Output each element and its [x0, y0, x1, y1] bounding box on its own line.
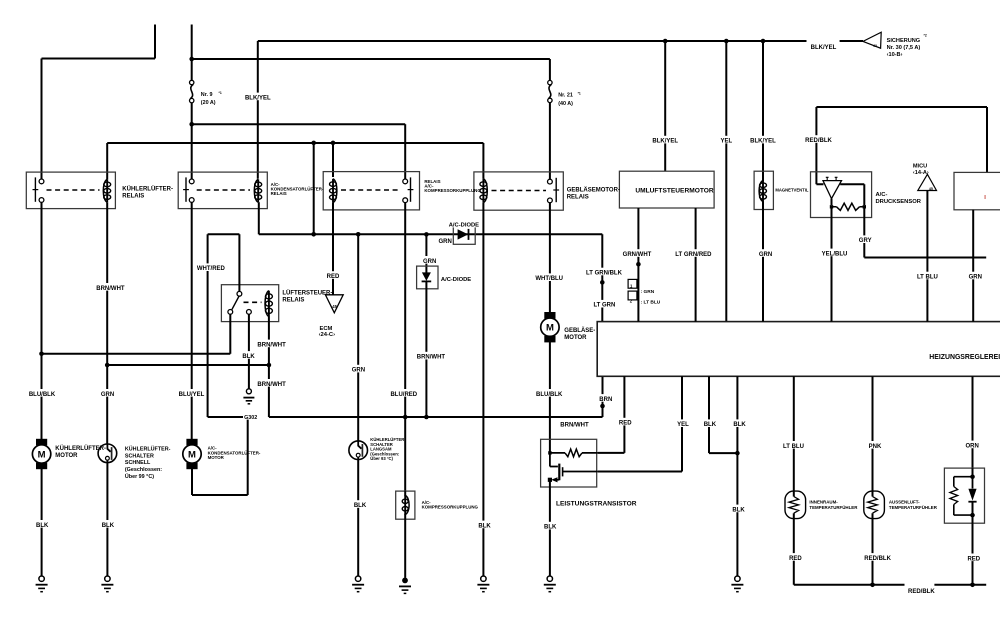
relay K2 dashed link [197, 189, 250, 191]
relay K4 contact bar [555, 178, 557, 202]
relay K1 contact pins [39, 179, 44, 184]
svg-text:BLU/BLK: BLU/BLK [29, 392, 56, 398]
wire top feed stub [154, 25, 156, 59]
svg-text:BLK: BLK [732, 507, 745, 513]
svg-text:HEIZUNGSREGLEREINHEIT: HEIZUNGSREGLEREINHEIT [929, 354, 1000, 361]
svg-text:DRUCKSENSOR: DRUCKSENSOR [876, 199, 922, 205]
wire LT BLU from MICU to heater unit [926, 191, 928, 322]
svg-text:Nr. 21: Nr. 21 [558, 92, 573, 98]
label WHT/RED [198, 263, 224, 271]
label BLK heater pin 1 [703, 419, 716, 427]
transistor gate bar [562, 467, 564, 476]
node A/C bus x313 [311, 232, 316, 237]
node sensor bus right end [970, 583, 975, 588]
wire relay K1 coil output down [106, 202, 108, 444]
label BLU/BLK blower [536, 389, 562, 397]
wire BLK to ground [736, 453, 738, 576]
wire bus y354 to radiator fan motor branch [42, 353, 231, 355]
svg-text:GRN: GRN [759, 252, 772, 258]
transistor drain link [550, 453, 558, 467]
ground LANGSAM switch [355, 576, 360, 581]
label GRN right module [969, 272, 982, 280]
svg-text:BLK/YEL: BLK/YEL [652, 139, 678, 145]
wire heater BLK pins join [709, 376, 737, 453]
relay K3 dashed link [341, 189, 398, 191]
svg-text:M: M [188, 449, 196, 460]
svg-text:(20 A): (20 A) [201, 100, 216, 106]
svg-text:RELAIS: RELAIS [567, 195, 589, 201]
sensor output from apex [831, 199, 833, 205]
label BRN/WHT diode output [418, 352, 444, 360]
label GRN at A/C diode bus [439, 236, 452, 244]
node BLK join [735, 451, 740, 456]
ground heater BLK [735, 576, 740, 581]
svg-text:SICHERUNG: SICHERUNG [887, 38, 921, 44]
svg-text:BRN/WHT: BRN/WHT [257, 382, 286, 388]
node A/C bus x358 [356, 232, 361, 237]
transistor gate lead [563, 471, 598, 473]
wire BRN/WHT from vertical diode down to BRN bus [425, 281, 427, 417]
svg-text:UMLUFTSTEUERMOTOR: UMLUFTSTEUERMOTOR [635, 188, 714, 195]
relay K1 coil [103, 179, 107, 202]
wire AUSSENLUFT RED/BLK down [872, 518, 874, 584]
wire ORN from heater to solar sensor [972, 376, 974, 470]
label GRN langsam wire [352, 365, 365, 373]
wire MAGNETVENTIL feed drop [762, 41, 764, 181]
svg-text:A/C-DIODE: A/C-DIODE [449, 223, 479, 229]
wire YEL/BLU sensor output to heater unit [831, 209, 833, 322]
wire fuse Nr.9 feed from top [191, 25, 193, 81]
svg-text:MICU: MICU [913, 163, 927, 169]
wire GRN stub down into vertical A/C diode [425, 234, 427, 272]
svg-text:GRN: GRN [352, 368, 365, 374]
connector pin 1 square [628, 279, 637, 288]
wire heater YEL pin to power transistor gate [598, 376, 682, 471]
svg-text:*1: *1 [219, 91, 222, 95]
wire relay K4 coil bottom to ground [482, 203, 484, 579]
wire top bus y41 after label [840, 40, 863, 42]
svg-text:ORN: ORN [966, 443, 979, 449]
solar sensor box [944, 468, 984, 523]
svg-text:YEL: YEL [720, 139, 732, 145]
label LT BLU micu [916, 272, 938, 280]
transistor channel bar [558, 464, 560, 481]
relay K2 contact pins [189, 179, 194, 184]
svg-text:RELAIS: RELAIS [122, 193, 144, 199]
svg-text:GRN/WHT: GRN/WHT [623, 252, 652, 258]
transistor source arrow [551, 477, 557, 482]
connector pin 2 square [628, 291, 637, 300]
wire bus y143 to A/C bus drop [313, 143, 315, 234]
svg-text:M: M [546, 323, 554, 334]
relay K4 GEBLAESEMOTOR-RELAIS box [474, 172, 563, 210]
svg-text:RELAIS: RELAIS [282, 297, 304, 303]
wire drop relay 3 contact feed [404, 124, 406, 179]
svg-text:LT BLU: LT BLU [783, 444, 804, 450]
svg-text:45: 45 [929, 187, 933, 191]
wire RED/BLK drop into A/C-DRUCKSENSOR [816, 107, 823, 184]
power transistor LEISTUNGSTRANSISTOR box [541, 439, 597, 487]
wire bus y59 from fuse Nr.9 node to fuse Nr.21 [192, 58, 550, 60]
label LT GRN/BLK [586, 268, 622, 276]
motor UMLUFTSTEUERMOTOR box [619, 171, 714, 208]
label YEL/BLU [821, 249, 847, 257]
label BLK transistor ground [544, 522, 557, 530]
svg-text:Nr. 30 (7,5 A): Nr. 30 (7,5 A) [887, 45, 921, 51]
svg-text:RED: RED [967, 556, 980, 562]
node BRN bus at BLU/RED [403, 415, 408, 420]
svg-text:GEBLÄSEMOTOR-: GEBLÄSEMOTOR- [567, 187, 620, 194]
MICU triangle [918, 174, 937, 190]
wire bus y143 relay coils feed [107, 142, 483, 144]
relay K1 contact bar [34, 177, 36, 201]
svg-text:BRN/WHT: BRN/WHT [96, 286, 125, 292]
wire fuse Nr.9 output down to relay 2 contact [191, 103, 193, 180]
label YEL feed [720, 136, 733, 144]
node top bus x726 [724, 39, 729, 44]
node sensor bus at AUSSENLUFT [870, 583, 875, 588]
svg-text:RED/BLK: RED/BLK [908, 589, 935, 595]
label BRN/WHT luefter relay coil upper [259, 340, 285, 348]
relay K3 A/C-KOMPRESSORKUPPLUNG relay box [323, 172, 419, 210]
svg-text:RELAIS: RELAIS [271, 191, 287, 196]
node BRN color change [600, 404, 605, 409]
wire GRY sensor output right [864, 209, 986, 258]
svg-text:BRN: BRN [599, 397, 612, 403]
node sensor resistor left [830, 205, 833, 208]
svg-text:G302: G302 [244, 415, 257, 421]
wire SCHNELL switch BLK to ground [106, 463, 108, 576]
label BRN/WHT relay1 coil out [97, 283, 123, 291]
ECM triangle [325, 295, 343, 313]
svg-text:45: 45 [332, 304, 337, 309]
wire radiator fan motor BLK to ground [41, 469, 43, 576]
label RED solar [967, 554, 980, 562]
svg-text:BLK: BLK [478, 523, 491, 529]
compressor clutch coil [404, 491, 406, 496]
svg-text:RED: RED [619, 421, 632, 427]
label BLK/YEL magnetventil feed [750, 136, 776, 144]
svg-text:GRY: GRY [859, 238, 872, 244]
svg-text:KOMPRESSORKUPPLUNG: KOMPRESSORKUPPLUNG [422, 505, 479, 510]
A/C-DIODE horizontal diode symbol [458, 229, 469, 239]
wire blower motor output BLU/BLK down to power transistor [549, 342, 551, 453]
relay K2 contact bar [185, 177, 187, 201]
wire drop into fuse Nr.21 [549, 59, 551, 81]
label BLK relay4 ground [478, 521, 491, 529]
wire relay K3 contact output BLU/RED down to compressor clutch [404, 202, 406, 491]
svg-text:KÜHLERLÜFTER-: KÜHLERLÜFTER- [125, 446, 171, 453]
node bus y143 x333 [331, 141, 336, 146]
svg-text:BRN/WHT: BRN/WHT [417, 355, 446, 361]
svg-text:GRN: GRN [439, 239, 452, 245]
relay K5 top pin [237, 291, 242, 296]
label A/C-DIODE horizontal [449, 220, 479, 227]
ground G302 [246, 389, 251, 394]
svg-text:BLU/BLK: BLU/BLK [536, 392, 563, 398]
wire relay K3 coil bottom RED to ECM [332, 203, 334, 295]
node transistor drain [548, 451, 551, 454]
svg-text:RED/BLK: RED/BLK [864, 556, 891, 562]
svg-text:M: M [38, 449, 46, 460]
sensor INNENRAUM-TEMPERATURFUEHLER [793, 376, 795, 493]
svg-text:MAGNETVENTIL: MAGNETVENTIL [775, 188, 808, 193]
label WHT/BLU [536, 273, 562, 281]
svg-text:BLK: BLK [704, 422, 717, 428]
svg-text:MOTOR: MOTOR [208, 455, 225, 460]
svg-text:BLK: BLK [544, 525, 557, 531]
svg-text:BRN/WHT: BRN/WHT [257, 342, 286, 348]
svg-text:GRN: GRN [101, 392, 114, 398]
svg-text:(40 A): (40 A) [558, 101, 573, 107]
fuse symbol SICHERUNG Nr.30 triangle [863, 32, 881, 48]
sensor feedback wire [840, 184, 864, 205]
wire UMLUFT motor GRN/WHT output down to heater unit [637, 208, 639, 322]
svg-text:42: 42 [873, 44, 877, 48]
sensor op-amp top pins [826, 177, 829, 180]
wire relay 1 coil top drop [106, 143, 108, 179]
wire INNENRAUM RED down [793, 518, 795, 584]
label ORN solar [966, 441, 979, 449]
svg-text:BLU/RED: BLU/RED [390, 392, 417, 398]
label BLK heater pin 2 [733, 419, 746, 427]
svg-text:SCHALTER: SCHALTER [125, 453, 154, 459]
svg-text:GEBLÄSE-: GEBLÄSE- [564, 327, 595, 334]
svg-text:A/C-DIODE: A/C-DIODE [441, 277, 471, 283]
svg-text:: LT BLU: : LT BLU [641, 300, 661, 306]
svg-text:YEL: YEL [677, 422, 689, 428]
node sensor resistor right [863, 205, 866, 208]
wire relay K2 coil bottom to A/C bus [258, 202, 260, 234]
wire RED/BLK feed horizontal y107 [816, 106, 987, 108]
svg-text:LT BLU: LT BLU [917, 275, 938, 281]
label BLU/BLK radiator fan [29, 389, 55, 397]
svg-text:SCHNELL: SCHNELL [125, 460, 151, 466]
wire GRN from right module to heater unit [972, 210, 974, 322]
node solar top [970, 474, 975, 479]
wire clutch to ground [404, 519, 406, 578]
wire LT GRN drop into heater unit [601, 234, 603, 321]
relay K4 coil [483, 179, 487, 203]
wire BLK/YEL drop to relay 1 contact [41, 59, 43, 180]
solenoid MAGNETVENTIL box [754, 171, 773, 209]
node LT GRN color change [600, 280, 605, 285]
ground relay K4 coil BLK [481, 576, 486, 581]
node bus y365 right [267, 363, 272, 368]
switch KUEHLERLUEFTER-SCHALTER SCHNELL [98, 444, 117, 463]
transistor internal resistor [565, 449, 582, 457]
label BLU/YEL [178, 389, 204, 397]
label LT BLU innenraum [782, 441, 804, 449]
relay K5 bottom pins [228, 310, 233, 315]
node A/C bus x426 [424, 232, 429, 237]
node top bus x763 [761, 39, 766, 44]
A/C-DIODE vertical diode symbol [422, 272, 431, 281]
svg-text:BLK: BLK [102, 523, 115, 529]
label BLK/YEL on top bus [810, 42, 836, 50]
svg-text:INNENRAUM-: INNENRAUM- [809, 500, 838, 505]
A/C-DIODE horizontal box [453, 225, 475, 245]
wire WHT/RED down to fan motor return bus [207, 234, 209, 417]
label BLK langsam [353, 500, 366, 508]
heater control unit HEIZUNGSREGLEREINHEIT box [597, 322, 1000, 377]
wire MAGNETVENTIL GRN output to heater unit [762, 202, 764, 322]
right edge module box [954, 172, 1000, 209]
svg-text:RED: RED [789, 556, 802, 562]
wire relay 4 coil top drop [482, 143, 484, 179]
node bus y143 x313 [311, 141, 316, 146]
wire sensor return bus y585 [794, 584, 905, 586]
A/C-DIODE vertical box [417, 266, 438, 289]
label BLK/YEL umluft feed [652, 136, 678, 144]
solenoid MAGNETVENTIL coil [759, 181, 763, 202]
relay K3 contact bar [410, 177, 412, 201]
svg-text:BLK: BLK [242, 354, 255, 360]
svg-text:MOTOR: MOTOR [55, 453, 78, 459]
label GRN schnell wire [101, 389, 114, 397]
node GRN/WHT splice [636, 262, 641, 267]
svg-text:WHT/BLU: WHT/BLU [535, 276, 563, 282]
sensor AUSSENLUFT-TEMPERATURFUEHLER [872, 376, 874, 493]
label GRN above vertical diode [423, 256, 436, 264]
wire link bus y365 GRN to BRN/WHT [107, 364, 269, 366]
wire bus y124 from fuse Nr.9 line to relay 3 contact [192, 123, 406, 125]
wire GRN drop to fan switch LANGSAM [357, 234, 359, 441]
svg-text:ECM: ECM [320, 326, 333, 332]
relay K5 coil [265, 291, 269, 317]
fuse Nr.9 (20 A) [190, 80, 194, 84]
svg-text:TEMPERATURFÜHLER: TEMPERATURFÜHLER [889, 505, 938, 510]
label GRY [859, 235, 872, 243]
relay K5 dashed link [244, 301, 262, 303]
node solar bottom [970, 513, 975, 518]
svg-text:LEISTUNGSTRANSISTOR: LEISTUNGSTRANSISTOR [556, 500, 637, 507]
label RED/BLK aussenluft [865, 553, 891, 561]
label YEL heater pin [676, 419, 689, 427]
node bus y124 tap [189, 122, 194, 127]
motor KUEHLERLUEFTER-MOTOR [36, 439, 47, 446]
wire relay K1 contact output down [41, 202, 43, 439]
A/C-KOMPRESSORKUPPLUNG box [396, 491, 415, 519]
svg-text:BLU/YEL: BLU/YEL [179, 392, 205, 398]
label BRN heater pin [599, 394, 612, 402]
label BLK heater ground [732, 505, 745, 513]
label LT GRN/RED [676, 249, 712, 257]
svg-text:KOMPRESSORKUPPLUNG: KOMPRESSORKUPPLUNG [424, 188, 481, 193]
node BRN bus at diode output [424, 415, 429, 420]
svg-text:Über 99 °C): Über 99 °C) [125, 473, 154, 480]
sensor internal resistor [837, 203, 860, 210]
svg-text:MOTOR: MOTOR [564, 335, 587, 341]
label BLK g302 wire [242, 351, 255, 359]
label BLK grounds left [36, 520, 49, 528]
wire relay K5 bottom-left pin down to bus y354 [229, 314, 231, 354]
label BRN/WHT luefter relay coil lower [259, 379, 285, 387]
svg-text:*1: *1 [578, 92, 581, 96]
wire relay K2 contact output BLU/YEL down to condenser fan motor [191, 202, 193, 439]
wire A/C bus y234 from relay K2 coil to heater unit [259, 233, 603, 235]
svg-text:BLK/YEL: BLK/YEL [245, 95, 271, 101]
label RED ecm wire [326, 271, 339, 279]
wire relay K4 contact output WHT/BLU to blower motor [549, 202, 551, 313]
svg-text:KÜHLERLÜFTER-: KÜHLERLÜFTER- [55, 445, 106, 452]
svg-text:Über 93 °C): Über 93 °C) [370, 456, 393, 461]
wire BRN/WHT bus y417 to heater unit BRN [269, 376, 603, 417]
svg-text:GRN: GRN [423, 259, 436, 265]
label RED heater pin [619, 418, 632, 426]
svg-text:LT GRN/BLK: LT GRN/BLK [586, 271, 623, 277]
svg-text:PNK: PNK [869, 444, 882, 450]
wire drop into right edge module [986, 107, 988, 172]
node transistor source [548, 478, 552, 482]
svg-text:Nr. 9: Nr. 9 [201, 92, 213, 98]
label BLK/YEL on fuse Nr.9 wire [245, 93, 271, 101]
wire relay K5 top pin up and over (WHT/RED jog) [208, 234, 240, 291]
svg-text:BLK: BLK [733, 422, 746, 428]
svg-text:BLK: BLK [36, 523, 49, 529]
node bus y354 at BLU/BLK wire [39, 352, 44, 357]
wire heater RED pin to power transistor [598, 376, 625, 453]
relay K5 blade [232, 296, 239, 310]
wire relay 3 coil top drop [332, 143, 334, 177]
svg-text:RED/BLK: RED/BLK [805, 138, 832, 144]
svg-text:‹14-A›: ‹14-A› [913, 170, 929, 176]
svg-text:KÜHLERLÜFTER-: KÜHLERLÜFTER- [122, 185, 173, 192]
switch KUEHLERLUEFTER-SCHALTER LANGSAM [349, 441, 368, 460]
ground SCHNELL switch [105, 576, 110, 581]
ground compressor clutch [402, 578, 408, 584]
ground transistor BLK [547, 576, 552, 581]
relay K5 LUEFTERSTEUER-RELAIS box [221, 285, 278, 322]
relay K1 KUEHLERLUEFTER-RELAIS box [26, 172, 115, 209]
relay K4 contact pins [548, 179, 553, 184]
sensor op-amp triangle [823, 181, 842, 199]
svg-text:RED: RED [327, 274, 340, 280]
svg-text:GRN: GRN [969, 275, 982, 281]
node fuse Nr.9 / bus y59 [189, 57, 194, 62]
fuse Nr.21 (40 A) [548, 80, 552, 84]
relay K1 dashed link [47, 189, 100, 191]
label LT GRN [593, 300, 615, 308]
sensor A/C-DRUCKSENSOR box [811, 172, 872, 218]
wire fuse Nr.21 output to relay 4 contact [549, 102, 551, 179]
wire solar RED output down [972, 523, 974, 585]
relay K3 coil [333, 179, 337, 203]
label BLU/RED [391, 389, 417, 397]
wire top bus y41 BLK/YEL to fuse Nr.30 [258, 40, 807, 42]
svg-text:: GRN: : GRN [641, 289, 655, 295]
wire fan motor return bus left segment [208, 416, 248, 418]
wire sensor return bus y585 right part [934, 584, 986, 586]
relay K4 dashed link [492, 190, 547, 192]
svg-text:AUSSENLUFT-: AUSSENLUFT- [889, 500, 920, 505]
svg-text:*2: *2 [924, 34, 927, 38]
node bus y365 left [105, 363, 110, 368]
wire condenser fan motor return loop [192, 417, 248, 495]
svg-text:LT GRN/RED: LT GRN/RED [675, 252, 712, 258]
label G302 [243, 413, 258, 420]
node top bus x665 [663, 39, 668, 44]
svg-text:A/C-: A/C- [876, 192, 888, 198]
solar sensor internals [972, 468, 974, 477]
label GRN magnetventil out [759, 249, 772, 257]
svg-text:TEMPERATURFÜHLER: TEMPERATURFÜHLER [809, 505, 858, 510]
label PNK aussenluft [868, 441, 881, 449]
svg-text:YEL/BLU: YEL/BLU [822, 251, 848, 257]
svg-text:LÜFTERSTEUER-: LÜFTERSTEUER- [282, 289, 332, 296]
wire YEL drop to heater control unit [725, 41, 727, 322]
ground radiator fan motor [39, 576, 44, 581]
